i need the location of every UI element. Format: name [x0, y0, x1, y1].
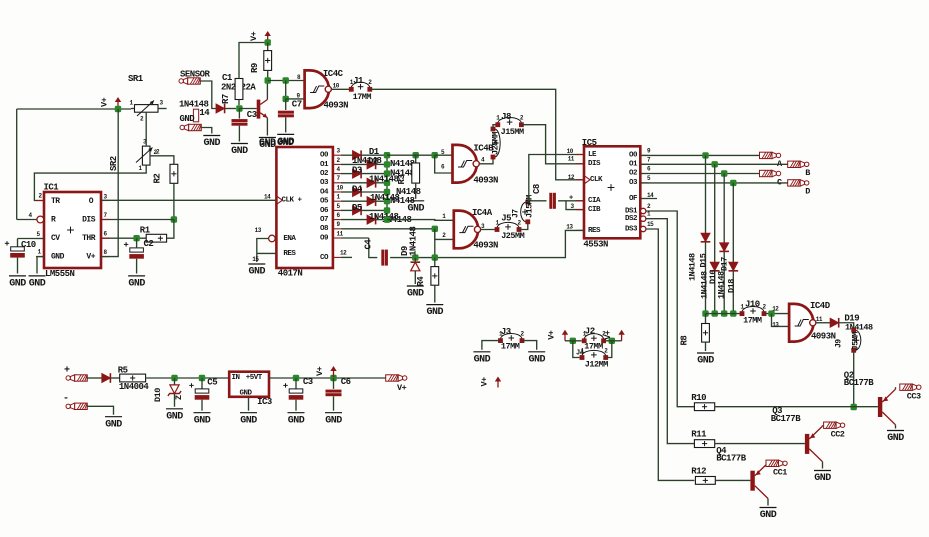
- wire J3 left to ground: [482, 341, 501, 350]
- pin 3 stub O0: [333, 154, 341, 156]
- node bus junction 3: [721, 310, 727, 316]
- ground below plug: [203, 135, 220, 137]
- IC3 voltage regulator: [229, 372, 269, 397]
- connector V+ output plug: [386, 375, 399, 381]
- svg-text:TR: TR: [51, 197, 60, 206]
- svg-text:D10: D10: [153, 388, 163, 402]
- svg-text:12: 12: [772, 305, 779, 312]
- svg-text:CC2: CC2: [831, 430, 845, 440]
- svg-text:C8: C8: [532, 184, 542, 194]
- svg-text:V+: V+: [249, 31, 259, 41]
- ground below R8: [697, 352, 714, 354]
- svg-text:D2: D2: [368, 157, 378, 167]
- node Q2 base junction: [851, 404, 857, 410]
- power V+ supply arrow top-left: [117, 102, 119, 109]
- wire R10 to Q2 base: [715, 406, 878, 408]
- wire IC3 out: [269, 377, 386, 379]
- svg-text:BC177B: BC177B: [771, 414, 802, 424]
- svg-text:GND: GND: [277, 138, 294, 149]
- svg-text:Z: Z: [174, 395, 184, 400]
- svg-text:GND: GND: [528, 354, 545, 365]
- svg-text:V+: V+: [315, 366, 325, 376]
- svg-text:CO: CO: [320, 254, 329, 262]
- diode D4 1N4148 on O3: [341, 182, 367, 184]
- wire diode bus vertical: [386, 155, 388, 219]
- svg-text:DS3: DS3: [625, 225, 638, 233]
- svg-text:+: +: [569, 195, 573, 203]
- svg-text:CIA: CIA: [588, 197, 601, 205]
- svg-text:GND: GND: [427, 307, 444, 318]
- svg-text:15: 15: [647, 221, 654, 228]
- svg-text:-: -: [63, 393, 69, 404]
- node junction A: [702, 152, 708, 158]
- svg-text:O7: O7: [320, 216, 328, 224]
- svg-text:O6: O6: [320, 207, 329, 215]
- svg-text:B: B: [805, 168, 810, 178]
- svg-text:14: 14: [647, 192, 654, 199]
- svg-text:1N4148: 1N4148: [845, 323, 873, 333]
- svg-text:GND: GND: [407, 203, 424, 214]
- svg-text:17MM: 17MM: [353, 92, 372, 102]
- node junction V+ rail: [115, 106, 121, 112]
- wire IC5 O0 to pad A: [640, 154, 759, 156]
- capacitor C2: [130, 248, 144, 252]
- wire R11 to Q3 base: [715, 443, 805, 445]
- svg-text:O8: O8: [320, 225, 329, 233]
- wire A line down: [705, 155, 707, 233]
- node bus junction 4: [730, 310, 736, 316]
- ground below D9: [407, 285, 424, 287]
- pin bubble DS1: [641, 208, 646, 213]
- svg-text:O2: O2: [629, 170, 638, 178]
- jumper J6: [495, 129, 500, 157]
- ground Q3: [814, 470, 831, 472]
- svg-text:LE: LE: [588, 151, 597, 159]
- node THR junction: [133, 235, 139, 241]
- svg-text:CIB: CIB: [588, 206, 601, 214]
- pin 12 CO stub wire: [341, 256, 352, 258]
- svg-text:BC177B: BC177B: [844, 378, 875, 388]
- wire to IC4C input 9: [286, 98, 305, 100]
- svg-text:O4: O4: [320, 188, 329, 196]
- ground below C5: [194, 412, 211, 414]
- node junction B: [712, 161, 718, 167]
- svg-text:D5: D5: [352, 203, 362, 213]
- wire O9 to C4: [341, 237, 369, 239]
- connector plug CC1: [766, 460, 779, 466]
- svg-text:CV: CV: [51, 234, 60, 243]
- power V+ arrow right of J2: [621, 334, 623, 341]
- wire Q1 collector up: [266, 81, 268, 100]
- svg-text:RES: RES: [588, 227, 601, 235]
- node C7 junction: [283, 77, 289, 83]
- svg-text:4093N: 4093N: [811, 332, 836, 342]
- IC1 LM555N timer: [44, 192, 101, 268]
- svg-text:J10: J10: [745, 300, 760, 310]
- ground below C10: [9, 275, 26, 277]
- svg-text:IC4A: IC4A: [472, 208, 493, 218]
- svg-text:GND: GND: [249, 267, 266, 278]
- wire D line down: [732, 183, 734, 262]
- pin 4 stub O2: [333, 173, 341, 175]
- svg-text:J25MM: J25MM: [491, 132, 501, 155]
- svg-text:CC3: CC3: [907, 392, 921, 402]
- node bus junction 2: [712, 310, 718, 316]
- capacitor C10 on CV: [18, 238, 45, 240]
- wire SR2 wiper to R2: [150, 156, 174, 165]
- wire C8 to CIA CIB: [558, 200, 584, 202]
- svg-text:O9: O9: [320, 234, 329, 242]
- svg-text:CC1: CC1: [773, 468, 787, 478]
- connector pad A: [760, 152, 773, 158]
- svg-text:V+: V+: [603, 330, 613, 340]
- wire diode bus horizontal: [706, 313, 743, 315]
- svg-text:C5: C5: [207, 378, 217, 388]
- diode D2 1N4148 on O1: [341, 163, 367, 165]
- diode D17 1N4148: [720, 243, 729, 252]
- svg-text:ENA: ENA: [283, 235, 296, 243]
- diode D1 1N4148 on O0: [341, 154, 353, 156]
- IC2 4017N decade counter: [276, 147, 333, 268]
- svg-text:O0: O0: [629, 152, 638, 160]
- svg-text:1N4148: 1N4148: [717, 271, 727, 299]
- node C5 junction: [199, 375, 205, 381]
- node second input junction: [283, 96, 289, 102]
- wire Q4 collector to ground: [767, 499, 769, 506]
- wire IC5 O3 to pad D: [640, 182, 787, 184]
- supply pin pad GND 14: [193, 109, 198, 122]
- svg-text:GND: GND: [697, 356, 714, 367]
- svg-text:GND: GND: [194, 415, 211, 426]
- svg-text:THR: THR: [82, 234, 96, 243]
- svg-text:GND: GND: [231, 146, 248, 157]
- svg-text:R10: R10: [691, 393, 706, 403]
- svg-text:GND: GND: [240, 390, 253, 398]
- svg-text:N4148: N4148: [390, 159, 415, 169]
- svg-text:4093N: 4093N: [324, 100, 349, 110]
- power V+ arrow floating: [497, 381, 499, 388]
- wire IC1 DIS to junction: [101, 219, 174, 221]
- wire J10 to IC4D inputs: [764, 313, 789, 315]
- diode D6 1N4148 on O5: [341, 200, 367, 202]
- svg-text:V+: V+: [480, 377, 490, 387]
- wire IC1 THR row: [101, 237, 146, 239]
- svg-text:GND: GND: [325, 415, 342, 426]
- svg-text:14: 14: [199, 108, 210, 118]
- svg-text:GND: GND: [166, 411, 183, 422]
- wire R12 to Q4 base: [715, 479, 750, 481]
- ground IC1 pin1: [29, 275, 46, 277]
- svg-text:15: 15: [252, 256, 259, 263]
- ground minus input: [105, 416, 122, 418]
- svg-text:GND: GND: [887, 433, 904, 444]
- svg-text:D3: D3: [352, 166, 362, 176]
- svg-text:CLK +: CLK +: [282, 197, 303, 205]
- svg-text:GND: GND: [128, 279, 145, 290]
- svg-text:GND: GND: [814, 473, 831, 484]
- diode D7 1N4148 on O6: [341, 209, 353, 211]
- node J2 left junction: [570, 338, 576, 344]
- wire DS2 down to resistor: [646, 219, 695, 444]
- svg-text:4017N: 4017N: [278, 269, 303, 279]
- ground Q4: [760, 507, 777, 509]
- diode D15 1N4148: [701, 233, 710, 242]
- svg-text:BC177B: BC177B: [716, 454, 747, 464]
- svg-text:V+: V+: [397, 383, 407, 393]
- svg-text:C4: C4: [364, 239, 374, 250]
- ground below D10: [166, 408, 183, 410]
- svg-text:C7: C7: [292, 100, 302, 110]
- wire Q3 collector to ground: [822, 462, 824, 469]
- svg-text:DIS: DIS: [82, 215, 96, 224]
- svg-text:RES: RES: [283, 250, 296, 258]
- svg-text:14: 14: [264, 194, 271, 201]
- svg-text:12: 12: [568, 174, 575, 181]
- ground below R4: [426, 304, 443, 306]
- svg-text:GND: GND: [259, 138, 276, 149]
- wire to IC4B input 6: [435, 155, 453, 173]
- svg-text:O0: O0: [320, 152, 329, 160]
- svg-text:O3: O3: [320, 179, 329, 187]
- wire IC3 GND to ground: [248, 397, 250, 411]
- svg-text:17MM: 17MM: [501, 342, 520, 352]
- svg-text:GND: GND: [204, 138, 221, 149]
- connector pad B: [788, 161, 801, 167]
- wire DS1 down to resistor: [646, 211, 695, 407]
- svg-text:C2: C2: [144, 239, 154, 249]
- svg-text:R2: R2: [153, 174, 163, 184]
- svg-text:LM555N: LM555N: [45, 269, 75, 279]
- wire O8 to IC4A input 2: [341, 228, 435, 230]
- svg-text:O1: O1: [629, 161, 638, 169]
- svg-text:GND: GND: [407, 289, 424, 300]
- pin 1 stub O5: [333, 200, 341, 202]
- wire SR1 wiper to SR2: [145, 112, 147, 141]
- svg-text:J9: J9: [835, 339, 844, 348]
- svg-text:17MM: 17MM: [743, 316, 762, 326]
- wire ENA RES to ground: [257, 239, 269, 263]
- svg-text:J15MM: J15MM: [525, 195, 535, 218]
- wire V+ to R7: [239, 43, 268, 79]
- svg-text:C6: C6: [341, 377, 351, 387]
- ground below C7: [277, 133, 294, 135]
- node D9 junction: [412, 254, 418, 260]
- svg-text:J15MM: J15MM: [501, 127, 524, 137]
- svg-text:11: 11: [337, 230, 344, 237]
- node V+ R9 junction: [265, 39, 271, 45]
- pin bubble IC1 R: [37, 216, 44, 223]
- svg-text:GND: GND: [29, 279, 46, 290]
- node gate input junction: [265, 77, 271, 83]
- power V+ arrow left of J2: [564, 334, 566, 341]
- wire J5 to J7: [519, 222, 528, 230]
- node D10 junction: [171, 375, 177, 381]
- svg-text:12: 12: [340, 250, 347, 257]
- svg-text:1N4004: 1N4004: [119, 382, 150, 392]
- svg-text:C3: C3: [247, 110, 257, 120]
- svg-text:J1: J1: [353, 76, 364, 86]
- ground below C3: [231, 143, 248, 145]
- svg-text:IC5: IC5: [582, 138, 597, 148]
- diode D18 1N4148: [729, 262, 738, 271]
- svg-text:4093N: 4093N: [473, 241, 498, 251]
- ground J3 right: [528, 351, 545, 353]
- ground IC2 ENA RES: [248, 263, 265, 265]
- svg-text:IN: IN: [232, 374, 240, 382]
- pin 2 stub O1: [333, 163, 341, 165]
- svg-text:D: D: [805, 187, 810, 197]
- wire D19 to J9: [839, 323, 854, 330]
- pin bubble DS3: [641, 226, 646, 231]
- svg-text:R9: R9: [250, 63, 260, 73]
- svg-text:R3: R3: [397, 175, 407, 185]
- ground below IC3: [240, 412, 257, 414]
- pin 9 stub O8: [333, 228, 341, 230]
- svg-text:OF: OF: [629, 195, 638, 203]
- svg-text:C3: C3: [303, 377, 313, 387]
- ground below C6: [325, 412, 342, 414]
- svg-text:13: 13: [566, 223, 573, 230]
- svg-text:O: O: [89, 197, 94, 206]
- svg-text:J2: J2: [585, 326, 595, 336]
- svg-text:V+: V+: [547, 330, 557, 340]
- svg-text:+: +: [64, 366, 70, 377]
- diode D8 1N4148 on O7: [341, 219, 367, 221]
- wire V+ rail to SR1 and IC1 pin4: [17, 108, 131, 110]
- power V+ arrow top: [267, 36, 269, 43]
- node C3 junction: [293, 375, 299, 381]
- wire J6 to J8: [493, 125, 498, 129]
- ground below C3: [288, 412, 305, 414]
- svg-text:R8: R8: [680, 336, 690, 346]
- diode D11 power: [102, 373, 111, 382]
- svg-text:11: 11: [816, 316, 823, 323]
- diode D5 1N4148 on O4: [341, 191, 353, 193]
- svg-text:GND: GND: [105, 419, 122, 430]
- svg-text:O1: O1: [320, 161, 329, 169]
- svg-text:J5MM: J5MM: [851, 332, 861, 351]
- wire IC1 V+ pin8 to rail: [101, 109, 118, 257]
- wire O8 node to reset bus: [434, 229, 436, 258]
- connector pad C: [760, 170, 773, 176]
- diode D16 1N4148: [710, 262, 719, 271]
- node C6 junction: [330, 375, 336, 381]
- svg-text:IC4D: IC4D: [810, 301, 831, 311]
- node IC4D input junction: [768, 310, 774, 316]
- wire J7 to LE node: [527, 201, 529, 202]
- wire SR2 pin1 to IC1 TR: [34, 165, 146, 201]
- svg-text:O2: O2: [320, 170, 329, 178]
- svg-text:+5VT: +5VT: [246, 374, 263, 382]
- wire R1 to DIS junction: [167, 220, 174, 239]
- wire J9 down to Q2 base node: [853, 350, 855, 407]
- svg-text:IC3: IC3: [257, 397, 272, 407]
- node junction D: [730, 180, 736, 186]
- svg-text:O3: O3: [629, 179, 638, 187]
- power V+ arrow at C6: [333, 371, 335, 378]
- connector plug to GND: [180, 125, 184, 129]
- svg-text:R7: R7: [221, 94, 231, 104]
- svg-text:V+: V+: [86, 252, 95, 261]
- svg-text:11: 11: [568, 156, 575, 163]
- pin 14 OF stub: [640, 198, 657, 200]
- svg-text:D17: D17: [720, 257, 730, 271]
- svg-text:V+: V+: [100, 97, 110, 107]
- diode D3 1N4148 on O2: [341, 173, 353, 175]
- svg-text:1N4148: 1N4148: [409, 226, 419, 256]
- svg-text:GND: GND: [51, 252, 65, 261]
- ground below C2: [128, 275, 145, 277]
- svg-text:13: 13: [255, 227, 262, 234]
- wire IC5 O2 to pad C: [640, 173, 759, 175]
- svg-text:D18: D18: [727, 279, 737, 293]
- ground Q1 emitter: [259, 137, 276, 139]
- svg-text:SR2: SR2: [109, 156, 119, 171]
- wire top row to IC4B: [387, 154, 435, 156]
- svg-text:CLK: CLK: [590, 176, 603, 184]
- wire C line down: [723, 174, 725, 243]
- wire IC1 GND pin to ground: [37, 257, 44, 274]
- wire J3 right to ground: [522, 341, 537, 350]
- pin 6 stub O7: [333, 219, 341, 221]
- node bus junction 1: [702, 310, 708, 316]
- svg-text:O5: O5: [320, 198, 329, 206]
- wire LE node to IC5 LE: [528, 155, 584, 201]
- svg-text:GND: GND: [180, 114, 196, 124]
- svg-text:IC1: IC1: [44, 183, 60, 193]
- svg-text:SR1: SR1: [128, 74, 144, 84]
- svg-text:13: 13: [772, 322, 779, 329]
- svg-text:GND: GND: [240, 415, 257, 426]
- pin 12 stub CO: [333, 256, 341, 258]
- wire J1 to IC5 CLK: [370, 89, 584, 180]
- svg-text:J7: J7: [512, 209, 521, 218]
- svg-text:R4: R4: [416, 276, 426, 287]
- svg-text:D15: D15: [699, 253, 709, 267]
- wire Q2 collector to ground: [895, 425, 897, 429]
- connector plug CC3: [900, 384, 913, 390]
- node DIS junction: [171, 216, 177, 222]
- IC5 4553N counter: [584, 146, 640, 238]
- svg-text:10: 10: [337, 184, 344, 191]
- wire DS3 down to resistor: [646, 229, 695, 480]
- svg-text:DIS: DIS: [588, 160, 601, 168]
- wire B line down: [714, 164, 716, 262]
- pin bubble DS2: [641, 216, 646, 221]
- svg-text:1N4148: 1N4148: [688, 253, 698, 281]
- wire C4 to reset bus: [390, 257, 435, 259]
- node base junction: [236, 105, 242, 111]
- svg-text:4093N: 4093N: [473, 176, 498, 186]
- ground below R3: [407, 200, 424, 202]
- connector pad D: [788, 180, 801, 186]
- svg-text:R12: R12: [691, 467, 706, 477]
- svg-text:GND: GND: [474, 354, 491, 365]
- svg-text:J12MM: J12MM: [585, 360, 608, 370]
- svg-text:DS2: DS2: [625, 215, 638, 223]
- svg-text:GND: GND: [288, 415, 305, 426]
- wire sensor to diode: [200, 81, 216, 109]
- svg-text:D4: D4: [352, 185, 363, 195]
- wire Q1 emitter to ground: [266, 118, 268, 136]
- svg-text:J25MM: J25MM: [501, 231, 524, 241]
- connector plug CC2: [824, 422, 837, 428]
- wire IC1 output to IC2 CLK: [101, 199, 276, 201]
- wire bus bottom to IC4A input 1: [384, 216, 390, 222]
- wire to IC4C input 8: [268, 80, 305, 82]
- wire R2 to DIS junction: [173, 183, 175, 219]
- svg-text:10: 10: [567, 148, 574, 155]
